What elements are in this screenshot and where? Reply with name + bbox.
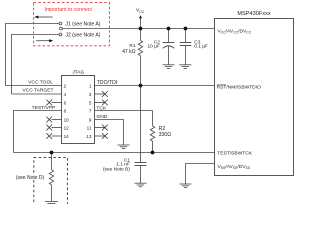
ground below C3 [179, 65, 191, 69]
svg-text:6: 6 [64, 100, 67, 105]
label see Note D [15, 173, 46, 181]
pin numbers left column [64, 83, 70, 139]
jumper J1 circle top [59, 22, 62, 25]
svg-text:9: 9 [89, 117, 92, 122]
svg-text:VSS/AVSS/DVSS: VSS/AVSS/DVSS [218, 164, 251, 170]
no-connect X pin 12 [46, 125, 61, 131]
pin numbers right column [86, 83, 92, 139]
wire RST to C1 vertical [140, 86, 142, 163]
svg-text:1: 1 [89, 83, 92, 88]
svg-text:4: 4 [64, 92, 67, 97]
svg-text:0.1 µF: 0.1 µF [194, 43, 208, 49]
ground below Note D resistor [45, 202, 58, 204]
resistor in Note D box [49, 153, 53, 202]
ground below GND pin [118, 145, 130, 149]
svg-text:330Ω: 330Ω [159, 132, 172, 138]
wire J1 top [6, 24, 60, 86]
svg-text:J1 (see Note A): J1 (see Note A) [65, 21, 100, 27]
svg-text:JTAG: JTAG [72, 69, 84, 75]
capacitor C1 [135, 163, 147, 184]
wire TEST/VPP pin 8 down to TEST rail [14, 111, 62, 153]
svg-text:2: 2 [64, 83, 67, 88]
junction dot Vcc/R1 [139, 27, 143, 31]
svg-text:VCC/AVCC/DVCC: VCC/AVCC/DVCC [218, 28, 252, 34]
ground for Vss pin [180, 184, 192, 188]
svg-text:(see Note B): (see Note B) [103, 166, 130, 172]
svg-text:3: 3 [89, 92, 92, 97]
no-connect X pin 10 [46, 117, 61, 123]
svg-text:8: 8 [64, 108, 67, 113]
no-connect X pin 5 [95, 100, 108, 106]
capacitor C2 [163, 29, 175, 65]
svg-text:5: 5 [89, 100, 92, 105]
no-connect X pin 11 [95, 125, 108, 131]
svg-text:Important to connect: Important to connect [45, 7, 93, 13]
dashed box see Note D [34, 157, 68, 207]
svg-text:VCC TOOL: VCC TOOL [28, 80, 53, 86]
Vcc supply symbol [136, 8, 145, 29]
arrow left [34, 16, 53, 19]
ground below C2 [163, 65, 175, 69]
wire Vss pin to ground [186, 164, 215, 184]
svg-text:RST/NMI/SBWTDIO: RST/NMI/SBWTDIO [217, 85, 261, 91]
svg-text:TCK: TCK [96, 106, 107, 112]
svg-text:GND: GND [96, 114, 107, 120]
junction dot R1/RST [139, 84, 143, 88]
svg-text:TEST/SBWTCK: TEST/SBWTCK [217, 150, 253, 156]
ground below C1 [135, 183, 147, 187]
wire VCC TOOL to pin 2 [6, 85, 62, 87]
junction dot C2 [167, 27, 171, 31]
wire TCK from pin 7 to R2 [95, 110, 153, 112]
svg-text:47 kΩ: 47 kΩ [122, 49, 136, 55]
no-connect X pin 14 [46, 133, 61, 139]
no-connect X pin 6 [46, 100, 61, 106]
no-connect X pin 13 [95, 133, 108, 139]
wire VCC TARGET to pin 4 [12, 93, 62, 95]
capacitor C3 [180, 29, 192, 65]
svg-text:10: 10 [64, 117, 70, 122]
junction dot R2/TEST [151, 151, 155, 155]
wire GND pin 9 [95, 120, 124, 145]
pin label RST/NMI/SBWTDIO [217, 85, 261, 91]
JTAG connector box [62, 76, 95, 144]
svg-text:J2 (see Note A): J2 (see Note A) [65, 33, 100, 39]
jumper common circle middle [60, 27, 63, 30]
svg-text:TEST/VPP: TEST/VPP [32, 105, 56, 111]
svg-text:VCC TARGET: VCC TARGET [22, 88, 53, 94]
wire Vcc rail [63, 28, 215, 30]
junction dot C3 [184, 27, 188, 31]
svg-text:12: 12 [64, 125, 70, 130]
svg-text:11: 11 [87, 125, 92, 130]
wire TEST rail [14, 152, 215, 154]
svg-text:TDO/TDI: TDO/TDI [97, 80, 117, 86]
svg-text:7: 7 [89, 108, 92, 113]
svg-text:(see Note D): (see Note D) [16, 175, 45, 181]
svg-text:10 µF: 10 µF [148, 43, 160, 49]
junction dot Note D resistor [50, 151, 54, 155]
svg-text:VCC: VCC [136, 8, 145, 14]
svg-text:13: 13 [86, 134, 92, 139]
svg-text:14: 14 [64, 134, 70, 139]
jumper J2 circle bottom [59, 33, 62, 36]
wire RST/NMI from pin 1 [95, 85, 215, 87]
red dashed box Important to connect [34, 3, 110, 46]
arrow right [36, 39, 53, 42]
resistor R1 [138, 29, 142, 86]
MSP430Fxxx box [215, 19, 294, 176]
svg-text:MSP430Fxxx: MSP430Fxxx [237, 11, 270, 17]
wire J2 [12, 35, 60, 95]
no-connect X pin 3 [95, 91, 108, 97]
resistor R2 [150, 111, 154, 153]
